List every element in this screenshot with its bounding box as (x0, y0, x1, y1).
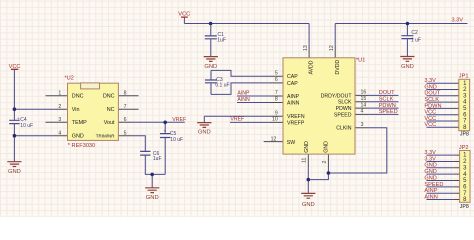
svg-text:VREFP: VREFP (287, 120, 305, 126)
svg-text:GND: GND (424, 84, 436, 90)
svg-text:8: 8 (275, 97, 278, 103)
svg-text:JP8: JP8 (460, 204, 469, 210)
svg-text:* REF3030: * REF3030 (68, 143, 95, 149)
svg-text:SW: SW (287, 140, 295, 146)
svg-text:1: 1 (58, 91, 61, 97)
svg-text:AINN: AINN (237, 97, 250, 103)
svg-text:GND: GND (424, 169, 436, 175)
svg-text:0.1 uF: 0.1 uF (215, 83, 229, 89)
svg-text:8: 8 (124, 91, 127, 97)
svg-text:13: 13 (303, 45, 309, 51)
svg-text:GND: GND (302, 202, 315, 208)
svg-text:VCC: VCC (424, 122, 436, 128)
svg-text:4: 4 (58, 131, 61, 137)
svg-text:3.3V: 3.3V (424, 150, 436, 156)
svg-text:11: 11 (302, 158, 308, 163)
svg-text:Vin: Vin (72, 107, 80, 113)
svg-text:3.3V: 3.3V (452, 17, 464, 23)
svg-text:12: 12 (271, 136, 277, 142)
svg-text:VREF: VREF (230, 117, 244, 123)
svg-text:SCLK: SCLK (424, 97, 439, 103)
svg-text:DOUT: DOUT (379, 90, 395, 96)
svg-text:Vout: Vout (104, 120, 115, 126)
svg-text:7: 7 (275, 90, 278, 96)
svg-text:PDWN: PDWN (379, 103, 396, 109)
svg-text:VCC: VCC (424, 116, 436, 122)
svg-text:SCLK: SCLK (379, 96, 394, 102)
svg-text:DNC: DNC (103, 94, 115, 100)
svg-text:7: 7 (124, 104, 127, 110)
svg-text:SPEED: SPEED (379, 109, 398, 115)
svg-text:C4: C4 (20, 117, 27, 123)
svg-text:1uF: 1uF (217, 38, 226, 44)
svg-text:GND: GND (323, 141, 329, 153)
svg-text:DNC: DNC (72, 94, 84, 100)
svg-text:3: 3 (361, 122, 364, 128)
svg-text:VREFN: VREFN (287, 114, 305, 120)
svg-text:GND: GND (8, 169, 21, 175)
svg-text:GND: GND (204, 64, 217, 70)
svg-text:3.3V: 3.3V (424, 78, 436, 84)
svg-text:2: 2 (58, 104, 61, 110)
svg-text:GND: GND (198, 129, 211, 135)
svg-text:6: 6 (275, 77, 278, 83)
svg-text:JP1: JP1 (459, 73, 469, 79)
svg-text:NC: NC (107, 107, 115, 113)
svg-text:CAP: CAP (287, 74, 298, 80)
svg-text:12: 12 (329, 45, 335, 51)
svg-text:TRIM/NR: TRIM/NR (96, 134, 115, 139)
svg-text:GND: GND (401, 64, 414, 70)
svg-text:5: 5 (275, 70, 278, 76)
svg-text:SPEED: SPEED (334, 112, 352, 118)
svg-text:JP8: JP8 (460, 131, 469, 137)
svg-text:GND: GND (72, 134, 84, 140)
svg-text:9: 9 (275, 110, 278, 116)
svg-text:*U2: *U2 (65, 76, 74, 82)
svg-text:DOUT: DOUT (424, 91, 440, 97)
svg-text:3.3V: 3.3V (424, 156, 436, 162)
svg-text:GND: GND (424, 163, 436, 169)
svg-text:*U1: *U1 (356, 57, 365, 63)
svg-text:3: 3 (58, 117, 61, 123)
svg-text:CLKIN: CLKIN (336, 126, 352, 132)
svg-text:15: 15 (361, 96, 367, 102)
svg-text:SPEED: SPEED (424, 182, 443, 188)
svg-text:16: 16 (361, 90, 367, 96)
svg-text:DVDD: DVDD (335, 60, 341, 75)
svg-text:SLCK: SLCK (338, 100, 352, 106)
svg-text:GND: GND (146, 195, 159, 201)
svg-text:1uF: 1uF (153, 156, 162, 162)
svg-text:GND: GND (424, 175, 436, 181)
svg-text:AINN: AINN (424, 194, 437, 200)
svg-text:+: + (163, 129, 166, 134)
svg-text:AINP: AINP (424, 188, 437, 194)
svg-text:10 uF: 10 uF (170, 137, 183, 143)
svg-text:VREF: VREF (172, 117, 186, 123)
svg-text:GND: GND (304, 141, 310, 153)
svg-text:+: + (17, 116, 20, 121)
svg-text:PDWN: PDWN (336, 106, 352, 112)
svg-text:AINP: AINP (237, 91, 250, 97)
svg-text:5: 5 (124, 131, 127, 137)
svg-text:2: 2 (322, 161, 328, 164)
svg-text:AINP: AINP (287, 94, 300, 100)
svg-text:AVDD: AVDD (309, 60, 315, 74)
svg-text:VCC: VCC (178, 11, 190, 17)
svg-text:AINN: AINN (287, 100, 300, 106)
svg-text:14: 14 (361, 102, 367, 108)
svg-text:10: 10 (272, 116, 278, 122)
svg-text:DRDY/DOUT: DRDY/DOUT (321, 93, 353, 99)
svg-text:TEMP: TEMP (72, 120, 87, 126)
svg-text:VCC: VCC (424, 110, 436, 116)
svg-text:C2: C2 (411, 30, 418, 36)
svg-text:PDWN: PDWN (424, 103, 441, 109)
svg-text:JP2: JP2 (459, 145, 469, 151)
svg-text:6: 6 (124, 117, 127, 123)
svg-text:4: 4 (361, 109, 364, 115)
svg-text:CAP: CAP (287, 81, 298, 87)
svg-text:1 uF: 1 uF (411, 38, 421, 44)
svg-text:VCC: VCC (9, 64, 21, 70)
svg-text:10 uF: 10 uF (20, 123, 33, 129)
